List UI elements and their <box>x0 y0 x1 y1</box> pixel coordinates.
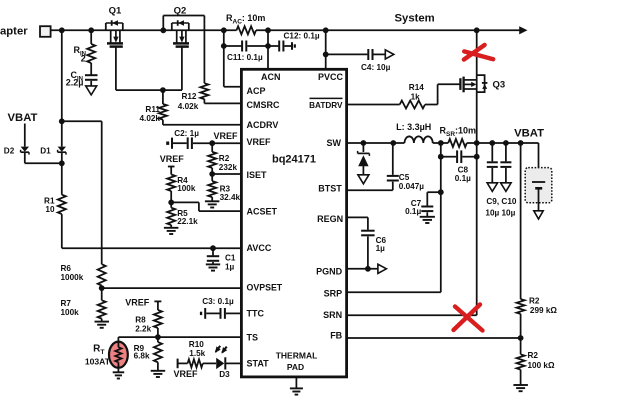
svg-text:C11: 0.1µ: C11: 0.1µ <box>227 53 263 62</box>
svg-text:RAC: 10m: RAC: 10m <box>226 13 265 26</box>
svg-text:22.1k: 22.1k <box>177 217 198 226</box>
svg-text:0.1µ: 0.1µ <box>455 174 471 183</box>
svg-text:299 kΩ: 299 kΩ <box>530 306 557 315</box>
svg-text:D2: D2 <box>4 147 15 156</box>
svg-text:VREF: VREF <box>214 131 239 141</box>
svg-text:SRP: SRP <box>324 288 343 298</box>
svg-text:TTC: TTC <box>247 308 265 318</box>
svg-text:100k: 100k <box>61 308 80 317</box>
svg-text:4.02k: 4.02k <box>140 114 161 123</box>
svg-text:100 kΩ: 100 kΩ <box>528 361 555 370</box>
svg-text:AVCC: AVCC <box>247 243 272 253</box>
svg-text:1.5k: 1.5k <box>189 349 205 358</box>
svg-text:D1: D1 <box>40 147 51 156</box>
svg-text:RSR:10m: RSR:10m <box>440 126 477 139</box>
svg-text:PGND: PGND <box>316 266 343 276</box>
svg-text:Q1: Q1 <box>109 5 122 16</box>
svg-text:THERMAL: THERMAL <box>276 351 318 361</box>
svg-text:PVCC: PVCC <box>318 72 344 82</box>
svg-text:6.8k: 6.8k <box>134 352 150 361</box>
svg-text:STAT: STAT <box>247 359 270 369</box>
svg-text:R12: R12 <box>181 92 196 101</box>
svg-text:VREF: VREF <box>160 154 185 164</box>
svg-text:C5: C5 <box>399 173 410 182</box>
svg-text:FB: FB <box>330 331 342 341</box>
svg-text:C3: 0.1µ: C3: 0.1µ <box>202 297 234 306</box>
svg-text:10µ 10µ: 10µ 10µ <box>485 209 515 218</box>
svg-text:RT: RT <box>93 344 105 357</box>
svg-text:VREF: VREF <box>174 369 199 379</box>
svg-text:2: 2 <box>81 53 86 63</box>
svg-text:4.02k: 4.02k <box>178 102 199 111</box>
svg-text:TS: TS <box>247 332 259 342</box>
svg-text:C1: C1 <box>225 253 236 262</box>
svg-text:R3: R3 <box>220 184 231 193</box>
svg-text:32.4k: 32.4k <box>220 193 241 202</box>
svg-text:apter: apter <box>0 26 28 38</box>
svg-text:VBAT: VBAT <box>8 112 38 124</box>
svg-text:SRN: SRN <box>323 310 342 320</box>
svg-text:ACSET: ACSET <box>247 207 278 217</box>
svg-text:C12: 0.1µ: C12: 0.1µ <box>284 32 320 41</box>
svg-text:R2: R2 <box>528 351 539 360</box>
svg-text:1µ: 1µ <box>376 244 386 253</box>
svg-text:R8: R8 <box>135 315 146 324</box>
svg-text:C4: 10µ: C4: 10µ <box>361 63 391 72</box>
svg-text:232k: 232k <box>219 163 238 172</box>
svg-text:Q2: Q2 <box>174 5 187 16</box>
svg-text:R7: R7 <box>61 299 72 308</box>
svg-text:R14: R14 <box>409 83 424 92</box>
svg-text:100k: 100k <box>177 184 196 193</box>
svg-text:R2: R2 <box>219 154 230 163</box>
svg-text:ISET: ISET <box>247 170 268 180</box>
svg-text:C2: 1µ: C2: 1µ <box>174 129 199 138</box>
svg-text:System: System <box>395 12 435 24</box>
svg-text:2.2k: 2.2k <box>135 325 151 334</box>
svg-text:CMSRC: CMSRC <box>247 100 280 110</box>
svg-text:bq24171: bq24171 <box>272 154 316 166</box>
svg-text:1µ: 1µ <box>225 263 235 272</box>
svg-text:OVPSET: OVPSET <box>247 283 283 293</box>
svg-text:103AT: 103AT <box>85 356 111 366</box>
svg-text:0.047µ: 0.047µ <box>399 182 424 191</box>
svg-text:ACDRV: ACDRV <box>247 120 279 130</box>
svg-text:REGN: REGN <box>317 214 343 224</box>
svg-text:BTST: BTST <box>318 183 342 193</box>
svg-text:R11: R11 <box>145 105 160 114</box>
svg-text:R10: R10 <box>189 340 204 349</box>
svg-text:0.1µ: 0.1µ <box>405 207 421 216</box>
svg-text:ACN: ACN <box>261 72 281 82</box>
svg-text:1000k: 1000k <box>61 273 84 282</box>
svg-text:VREF: VREF <box>125 298 150 308</box>
svg-text:VREF: VREF <box>247 137 272 147</box>
svg-text:SW: SW <box>327 138 342 148</box>
svg-text:1k: 1k <box>411 92 421 101</box>
svg-text:10: 10 <box>45 205 55 214</box>
svg-text:L: 3.3µH: L: 3.3µH <box>396 122 431 132</box>
svg-text:D3: D3 <box>219 370 230 379</box>
svg-text:VBAT: VBAT <box>514 128 544 140</box>
svg-text:ACP: ACP <box>247 86 266 96</box>
svg-text:R2: R2 <box>529 296 540 305</box>
svg-text:R6: R6 <box>61 264 72 273</box>
svg-text:BATDRV: BATDRV <box>309 101 343 110</box>
svg-text:Q3: Q3 <box>493 79 506 90</box>
svg-text:C9, C10: C9, C10 <box>486 197 516 206</box>
svg-text:2.2µ: 2.2µ <box>66 77 84 87</box>
svg-text:PAD: PAD <box>287 362 304 372</box>
